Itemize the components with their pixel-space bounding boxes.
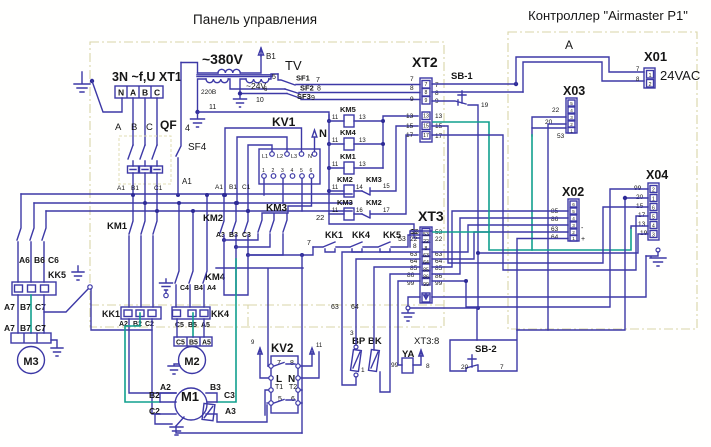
svg-text:8: 8 (435, 90, 439, 97)
svg-text:17: 17 (435, 133, 443, 140)
svg-text:220В: 220В (201, 89, 216, 96)
svg-text:1: 1 (572, 236, 575, 241)
svg-text:B2: B2 (149, 390, 160, 400)
svg-text:SB-2: SB-2 (475, 344, 497, 355)
svg-text:7: 7 (410, 76, 414, 83)
svg-text:KK1: KK1 (102, 309, 120, 319)
svg-text:3N ~f,U XT1: 3N ~f,U XT1 (112, 70, 182, 84)
svg-text:A1: A1 (215, 184, 223, 191)
svg-text:17: 17 (383, 208, 390, 214)
svg-text:11: 11 (332, 115, 339, 121)
svg-text:SB-1: SB-1 (451, 71, 473, 82)
svg-text:B3: B3 (210, 382, 221, 392)
svg-text:7: 7 (435, 82, 439, 89)
svg-text:20: 20 (545, 119, 553, 126)
svg-text:KM4: KM4 (340, 128, 357, 137)
svg-text:X02: X02 (562, 185, 584, 199)
svg-text:13: 13 (638, 221, 646, 228)
svg-text:13: 13 (435, 113, 443, 120)
svg-text:8: 8 (425, 90, 428, 96)
svg-text:C3: C3 (224, 390, 235, 400)
svg-text:B7: B7 (20, 323, 31, 333)
svg-text:86: 86 (551, 216, 559, 223)
svg-text:C1: C1 (242, 184, 251, 191)
svg-text:13: 13 (423, 114, 429, 120)
svg-text:A3: A3 (225, 406, 236, 416)
svg-text:8: 8 (317, 86, 321, 93)
svg-text:X04: X04 (646, 168, 668, 182)
svg-text:C3: C3 (242, 232, 251, 239)
svg-text:KM2: KM2 (337, 175, 353, 184)
svg-text:4: 4 (572, 216, 575, 221)
svg-text:A7: A7 (4, 302, 15, 312)
svg-text:1: 1 (570, 129, 573, 134)
svg-text:53: 53 (398, 236, 406, 243)
svg-text:13: 13 (359, 162, 366, 168)
svg-text:6: 6 (310, 168, 313, 174)
svg-text:7: 7 (425, 82, 428, 88)
svg-text:85: 85 (410, 265, 418, 272)
svg-text:13: 13 (359, 138, 366, 144)
svg-text:KM2: KM2 (203, 213, 223, 224)
svg-text:C: C (146, 122, 153, 133)
svg-text:TV: TV (285, 58, 302, 73)
svg-text:N: N (308, 154, 312, 160)
svg-text:6: 6 (572, 202, 575, 207)
svg-text:63: 63 (331, 304, 339, 311)
svg-text:B1: B1 (266, 52, 276, 61)
svg-text:13: 13 (359, 115, 366, 121)
svg-text:C1: C1 (154, 185, 163, 192)
svg-text:L2: L2 (277, 154, 283, 160)
svg-text:KV2: KV2 (271, 343, 293, 355)
svg-text:5: 5 (300, 168, 303, 174)
svg-text:64: 64 (423, 260, 429, 266)
svg-text:BK: BK (368, 336, 382, 347)
svg-text:L3: L3 (291, 154, 297, 160)
svg-text:53: 53 (410, 229, 418, 236)
svg-text:A2: A2 (119, 321, 128, 328)
svg-text:11: 11 (332, 138, 339, 144)
svg-text:17: 17 (406, 132, 414, 139)
svg-text:3: 3 (652, 233, 655, 239)
svg-text:SF3: SF3 (297, 92, 311, 101)
svg-text:A5: A5 (201, 322, 210, 329)
svg-text:6: 6 (652, 206, 655, 212)
svg-text:22: 22 (423, 239, 429, 245)
svg-text:C: C (154, 88, 160, 98)
svg-text:KK1: KK1 (325, 230, 343, 240)
svg-text:A1: A1 (182, 177, 192, 186)
svg-text:15: 15 (383, 184, 390, 190)
svg-text:9: 9 (410, 96, 414, 103)
svg-text:2: 2 (652, 188, 655, 194)
svg-text:22: 22 (552, 107, 560, 114)
svg-text:XT2: XT2 (412, 54, 438, 70)
svg-text:X01: X01 (644, 49, 667, 64)
svg-text:1: 1 (262, 168, 265, 174)
svg-text:4: 4 (185, 123, 190, 133)
svg-text:SF1: SF1 (296, 74, 310, 83)
svg-text:Панель управления: Панель управления (193, 12, 317, 27)
svg-text:53: 53 (423, 232, 429, 238)
svg-text:9: 9 (311, 95, 315, 102)
svg-text:64: 64 (551, 234, 559, 241)
svg-text:3: 3 (570, 115, 573, 120)
svg-text:B7: B7 (20, 302, 31, 312)
svg-text:8: 8 (413, 243, 417, 250)
svg-text:B1: B1 (131, 185, 139, 192)
svg-text:2: 2 (272, 168, 275, 174)
svg-text:13: 13 (406, 113, 414, 120)
svg-text:A1: A1 (117, 185, 125, 192)
svg-text:1: 1 (649, 73, 652, 79)
svg-text:KK4: KK4 (352, 230, 370, 240)
svg-text:7: 7 (316, 77, 320, 84)
svg-text:N: N (319, 128, 327, 140)
svg-text:B6: B6 (34, 255, 45, 265)
svg-text:C4: C4 (180, 285, 189, 292)
svg-text:2: 2 (570, 122, 573, 127)
svg-text:QF: QF (160, 118, 177, 132)
svg-text:7: 7 (307, 240, 311, 247)
svg-text:22: 22 (316, 213, 324, 222)
svg-text:C7: C7 (35, 323, 46, 333)
svg-text:A7: A7 (4, 323, 15, 333)
svg-text:X03: X03 (563, 84, 585, 98)
svg-text:15: 15 (406, 123, 414, 130)
svg-text:63: 63 (423, 253, 429, 259)
svg-text:8: 8 (425, 246, 428, 252)
svg-text:SF4: SF4 (188, 142, 207, 153)
svg-text:B: B (131, 122, 137, 133)
svg-text:B4: B4 (194, 285, 203, 292)
svg-text:KM5: KM5 (340, 105, 356, 114)
svg-text:17: 17 (423, 133, 429, 139)
svg-text:A2: A2 (160, 382, 171, 392)
svg-text:B1: B1 (229, 184, 237, 191)
svg-text:11: 11 (332, 162, 339, 168)
svg-text:M1: M1 (181, 389, 199, 404)
svg-text:4: 4 (291, 168, 294, 174)
svg-text:T1: T1 (275, 384, 283, 391)
svg-text:20: 20 (461, 364, 469, 371)
svg-text:A: A (565, 38, 573, 52)
svg-text:2: 2 (649, 82, 652, 88)
svg-text:KM3: KM3 (337, 198, 353, 207)
svg-text:XT3:8: XT3:8 (414, 336, 439, 347)
svg-text:XT3: XT3 (418, 208, 444, 224)
svg-text:Контроллер "Airmaster P1": Контроллер "Airmaster P1" (528, 8, 688, 23)
svg-text:22: 22 (410, 236, 418, 243)
svg-text:KM3: KM3 (366, 175, 382, 184)
svg-text:A6: A6 (19, 255, 30, 265)
svg-text:A: A (130, 88, 136, 98)
svg-text:N: N (118, 88, 124, 98)
svg-text:KK5: KK5 (48, 270, 66, 280)
svg-text:9: 9 (425, 98, 428, 104)
svg-text:19: 19 (481, 102, 489, 109)
svg-text:~380V: ~380V (202, 51, 244, 67)
svg-text:2: 2 (572, 230, 575, 235)
svg-text:5: 5 (570, 101, 573, 106)
svg-text:T2: T2 (289, 384, 297, 391)
svg-text:M2: M2 (184, 356, 199, 368)
svg-text:5: 5 (272, 74, 276, 81)
svg-text:M3: M3 (23, 356, 38, 368)
svg-text:5: 5 (652, 215, 655, 221)
svg-text:15: 15 (423, 124, 429, 130)
svg-text:8: 8 (426, 363, 430, 370)
svg-text:1: 1 (652, 197, 655, 203)
svg-text:11: 11 (332, 185, 339, 191)
svg-text:22: 22 (435, 236, 443, 243)
svg-text:A: A (115, 122, 122, 133)
svg-text:11: 11 (209, 104, 216, 111)
svg-text:3: 3 (572, 223, 575, 228)
svg-text:24VAC: 24VAC (660, 68, 700, 83)
svg-text:A4: A4 (207, 285, 216, 292)
svg-text:5: 5 (572, 209, 575, 214)
svg-text:KV1: KV1 (272, 115, 296, 129)
svg-text:KM4: KM4 (205, 272, 226, 283)
svg-text:86: 86 (423, 275, 429, 281)
svg-text:10: 10 (256, 97, 264, 104)
svg-text:KM1: KM1 (340, 152, 356, 161)
svg-text:+: + (581, 236, 585, 243)
svg-text:3: 3 (281, 168, 284, 174)
svg-text:1: 1 (361, 367, 365, 374)
svg-text:11: 11 (332, 208, 339, 214)
svg-text:8: 8 (410, 85, 414, 92)
svg-text:99: 99 (423, 282, 429, 288)
svg-text:L1: L1 (262, 154, 268, 160)
svg-text:11: 11 (316, 343, 323, 349)
svg-text:85: 85 (435, 265, 443, 272)
svg-text:KM1: KM1 (107, 221, 128, 232)
svg-text:16: 16 (356, 208, 363, 214)
svg-text:14: 14 (356, 185, 363, 191)
svg-text:4: 4 (570, 108, 573, 113)
svg-text:53: 53 (557, 133, 565, 140)
svg-text:KK4: KK4 (211, 309, 229, 319)
svg-text:86: 86 (407, 272, 415, 279)
svg-text:7: 7 (500, 364, 504, 371)
svg-text:KM2: KM2 (366, 198, 382, 207)
svg-text:B: B (142, 88, 148, 98)
svg-text:C6: C6 (48, 255, 59, 265)
svg-text:4: 4 (652, 224, 655, 230)
svg-text:85: 85 (423, 268, 429, 274)
svg-text:64: 64 (351, 304, 359, 311)
